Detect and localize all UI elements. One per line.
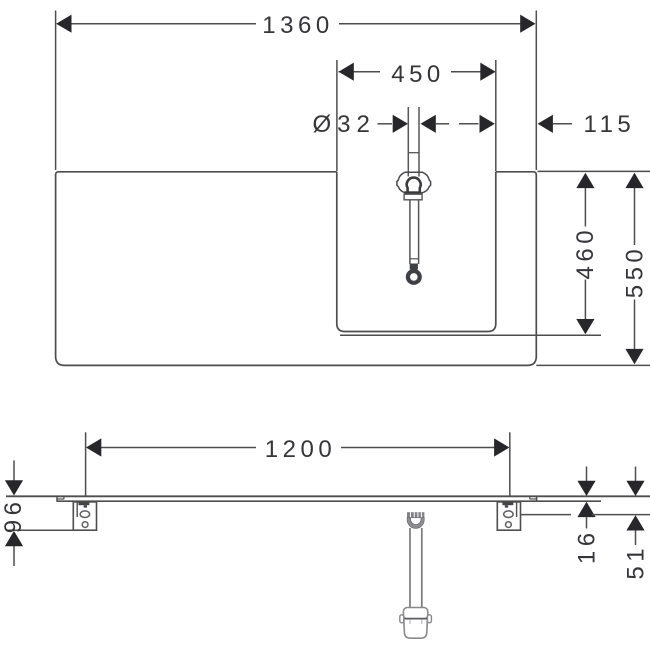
dim 450 arrow right [480, 63, 495, 81]
left bracket screw tab [79, 502, 90, 505]
right bracket body [497, 502, 520, 530]
svg-text:550: 550 [622, 245, 649, 299]
slab right end cap [536, 496, 538, 502]
dim 32 arrow right (points left at pipe) [421, 115, 436, 133]
dim 1200 line [87, 447, 256, 449]
dim 32 tail line [436, 123, 449, 125]
dim 16 line top [586, 467, 588, 482]
slab left end cap [56, 496, 58, 502]
right bracket slot [504, 511, 513, 518]
dim 32 arrow at basin edge [480, 115, 495, 133]
right bracket hole [506, 522, 512, 528]
svg-text:16: 16 [574, 528, 601, 564]
drain flange dark band [404, 191, 421, 194]
svg-text:460: 460 [572, 226, 599, 280]
slab right edge step [529, 496, 531, 499]
trap cup rim underside [403, 618, 427, 620]
drain collar outer (plan) [397, 172, 431, 193]
dim 115 line [553, 123, 572, 125]
extension line top right (from countertop top edge) [538, 170, 650, 172]
svg-text:1200: 1200 [265, 436, 336, 463]
dim 96 arrow top [5, 480, 23, 495]
drain end ring [408, 271, 420, 283]
trap cup left ear [400, 615, 404, 623]
dim 115 arrow (points left at countertop edge) [538, 115, 553, 133]
trap cup body [404, 620, 428, 639]
right bracket inner fold line [516, 502, 518, 517]
dim 1200 extension line left [85, 432, 87, 495]
dim 1200 extension line right [509, 432, 511, 495]
dim 96 arrow bottom [5, 531, 23, 546]
dim 450 extension line left [336, 60, 338, 171]
dim 1200 arrow left [86, 438, 101, 456]
dim 51 arrow down [626, 481, 644, 496]
drain pipe upper (plan) [407, 107, 409, 177]
trap inner pipe hint [409, 620, 411, 624]
left bracket inner fold line [76, 502, 78, 517]
drain tailpipe (plan) [409, 200, 411, 264]
svg-text:Ø32: Ø32 [313, 111, 376, 138]
dim 16 arrow down [577, 481, 595, 496]
dim 16 arrow up [577, 502, 595, 517]
right bracket screw tab [502, 502, 513, 505]
dim 450 extension line right [495, 60, 497, 171]
drain pipe joint tick [408, 152, 419, 154]
dim 96 line [13, 460, 15, 481]
trap vertical pipe [409, 528, 411, 612]
svg-text:51: 51 [623, 544, 650, 580]
dim 51 line bottom [635, 531, 637, 546]
left bracket slot [80, 511, 89, 518]
dim 550 arrow bottom [625, 349, 643, 364]
left bracket body [73, 502, 96, 530]
extension line countertop front edge [536, 364, 650, 366]
dim 1360 extension line left [55, 11, 57, 171]
dim 51 line top [635, 467, 637, 482]
console slab top line (with extensions both sides) [6, 495, 650, 497]
left bracket hole [82, 522, 88, 528]
trap compression nut [407, 512, 424, 517]
console slab bottom line (with right extension) [57, 500, 601, 502]
trap cup rim [403, 608, 427, 620]
dim 32 arrow left (points right at pipe) [393, 115, 408, 133]
dim 460 line [584, 188, 586, 227]
dim 550 arrow top [625, 173, 643, 188]
dim 1360 extension line right [535, 11, 537, 171]
dim 460 arrow top [576, 173, 594, 188]
dim 16 line bottom [586, 517, 588, 528]
dim 32 line left [378, 123, 393, 125]
dim 96 extension line (bracket bottom) [8, 529, 97, 531]
dim 460 arrow bottom [576, 319, 594, 334]
dim 51 arrow up [626, 515, 644, 530]
drain end neck [410, 264, 418, 270]
dim 450 line [339, 71, 381, 73]
extension line basin front edge [340, 334, 601, 336]
drain flange nut [404, 194, 422, 200]
dim 1360 arrow left [56, 15, 71, 33]
dim 51 extension line [521, 514, 571, 516]
drain collar dome (omega) [407, 178, 421, 192]
countertop outline (plan view) [56, 172, 537, 366]
dim 450 arrow left [339, 63, 354, 81]
svg-text:96: 96 [0, 498, 27, 534]
trap U-bend [407, 518, 424, 529]
svg-text:450: 450 [391, 61, 445, 88]
dim 1200 arrow right [494, 438, 509, 456]
slab left edge step [63, 496, 65, 499]
basin cutout (plan view) [337, 172, 496, 332]
dim 550 line [634, 188, 636, 246]
svg-text:1360: 1360 [262, 12, 333, 39]
drain tailpipe tick [410, 258, 419, 260]
trap cup right ear [427, 615, 431, 623]
dim 1360 arrow right [520, 15, 535, 33]
dim 1360 line [57, 23, 256, 25]
svg-text:115: 115 [584, 111, 636, 138]
